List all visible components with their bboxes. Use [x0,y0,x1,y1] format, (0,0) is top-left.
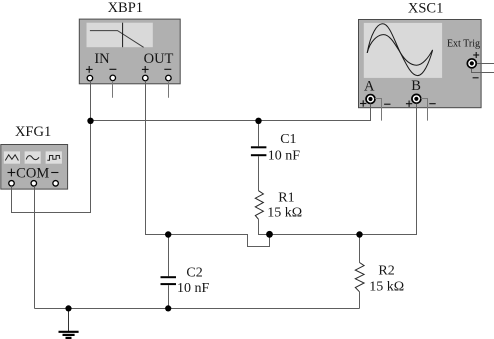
node C1 top [255,118,261,124]
svg-text:OUT: OUT [144,51,174,67]
bode plotter XBP1 [79,0,180,84]
node C2 top [165,231,171,237]
XFG1 sine button [25,151,41,163]
node C2 bottom [165,305,171,311]
svg-text:C2: C2 [186,265,202,280]
XBP1 cursor [122,23,124,48]
node R2 top [356,231,362,237]
wire OUT- stub [168,81,170,98]
XSC1 terminal A [366,95,375,104]
XBP1 screen [87,23,153,48]
XSC1 trace 2 [367,35,432,66]
capacitor C1 [251,121,300,191]
resistor R2 [355,235,404,309]
svg-text:R2: R2 [378,263,394,278]
svg-text:XFG1: XFG1 [15,124,51,140]
XFG1 body [1,145,68,190]
XFG1 terminal + [9,181,15,187]
triangle wave icon [5,155,18,161]
svg-text:Ext Trig: Ext Trig [447,39,480,50]
svg-text:15 kΩ: 15 kΩ [369,280,404,295]
svg-text:R1: R1 [278,191,294,206]
svg-text:15 kΩ: 15 kΩ [267,206,302,221]
wire OUT+ down to mid rail with hop under R1 [146,81,270,247]
XBP1 terminal IN+ [87,75,93,81]
wire ext trig out [477,63,494,65]
svg-text:XSC1: XSC1 [408,1,443,17]
XSC1 screen [364,23,442,78]
svg-text:A: A [364,78,375,94]
svg-text:IN: IN [94,51,110,67]
resistor R1 [255,191,302,235]
XFG1 triangle button [4,151,20,163]
wire IN+ down to node, continuing to XFG+ loop [12,81,91,213]
ground [59,309,79,338]
wire COM down [34,186,36,308]
XBP1 terminal OUT+ [143,75,149,81]
XFG1 square button [46,151,62,163]
wire bottom rail [35,308,360,310]
XFG1 terminal COM [31,181,37,187]
svg-text:XBP1: XBP1 [108,0,143,16]
node XFG+/IN+/A junction [87,118,93,124]
XSC1 terminal Ext Trig [467,59,476,68]
wire B- stub [421,99,428,121]
function generator XFG1 [1,124,68,189]
svg-text:COM: COM [16,165,49,181]
XSC1 terminal B [412,94,421,103]
XBP1 response curve [90,31,144,48]
XBP1 body [79,19,180,84]
svg-text:10 nF: 10 nF [268,149,301,164]
wire A- stub [375,99,382,121]
svg-text:10 nF: 10 nF [177,281,210,296]
sine wave icon [26,156,39,160]
XSC1 trace 1 [367,24,432,76]
square wave icon [47,156,60,161]
node dots [65,118,362,312]
XBP1 terminal OUT- [166,75,172,81]
XSC1 body [359,20,482,108]
node R1 bottom [266,231,273,238]
XBP1 terminal IN- [110,75,116,81]
wire node to scope A [91,104,371,121]
wire R1 node to R2 node [270,234,360,236]
XFG1 terminal - [53,181,59,187]
svg-text:B: B [411,78,421,94]
svg-text:C1: C1 [280,132,296,147]
node ground [65,305,71,311]
capacitor C2 [161,235,210,309]
wire IN- stub [112,81,114,98]
oscilloscope XSC1 [359,1,482,108]
wire B down to R2 node [360,104,417,235]
wire ext trig lower out [472,68,494,72]
